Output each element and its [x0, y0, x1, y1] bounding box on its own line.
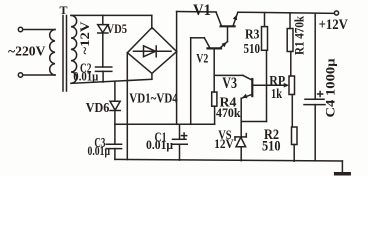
svg-text:RP: RP [269, 73, 285, 88]
diode VD6 [114, 81, 116, 101]
wire bridge left (DC-) down to ground rail [126, 53, 128, 160]
wire node line [115, 123, 215, 125]
svg-text:470k: 470k [216, 105, 241, 120]
svg-text:V1: V1 [193, 2, 211, 19]
capacitor C4 [314, 13, 316, 99]
transistor V1 [221, 25, 235, 27]
svg-text:1k: 1k [271, 87, 282, 102]
+12V terminal [334, 11, 338, 15]
transformer T primary winding [50, 30, 55, 76]
svg-text:C4 1000μ: C4 1000μ [323, 58, 338, 118]
zener VS [235, 136, 246, 138]
svg-text:510: 510 [262, 139, 281, 155]
svg-text:+12V: +12V [319, 17, 348, 33]
svg-text:VD1~VD4: VD1~VD4 [129, 92, 178, 107]
resistor R3 [264, 13, 266, 27]
wire rail down to bridge top [151, 15, 153, 28]
svg-text:R1 470k: R1 470k [292, 15, 307, 55]
svg-text:VD5: VD5 [107, 22, 128, 36]
wire bottom ground rail [115, 159, 343, 161]
transformer T primary terminal bottom [18, 73, 22, 77]
transformer T primary terminal top [18, 27, 22, 31]
capacitor C1 [179, 124, 181, 139]
bridge inner diode [134, 50, 172, 52]
wire secondary bottom AC [71, 79, 152, 83]
svg-text:T: T [60, 3, 68, 17]
svg-text:0.01μ: 0.01μ [88, 144, 111, 158]
svg-text:12V: 12V [214, 136, 234, 151]
capacitor C3 [114, 124, 116, 144]
wire top AC rail [71, 14, 152, 16]
svg-text:V2: V2 [196, 50, 208, 65]
wire raw DC vertical [176, 12, 178, 125]
C4 polarity + [318, 92, 323, 97]
potentiometer RP [289, 76, 295, 95]
svg-text:~220V: ~220V [8, 44, 46, 59]
svg-text:510: 510 [244, 42, 261, 57]
wire top right rail output segment [238, 12, 335, 13]
transformer secondary winding [71, 15, 77, 83]
capacitor C2 [96, 66, 112, 68]
ground [334, 172, 351, 176]
transformer core [62, 16, 64, 92]
bridge rectifier VD1~VD4 diamond [127, 28, 176, 74]
wire [23, 74, 55, 76]
resistor R2 [292, 127, 298, 145]
svg-text:0.01μ: 0.01μ [146, 138, 173, 152]
transistor V2 [208, 47, 222, 49]
svg-text:~12V: ~12V [77, 21, 92, 55]
transistor V3 [251, 79, 253, 96]
svg-text:0.01μ: 0.01μ [73, 70, 98, 84]
svg-text:V3: V3 [222, 75, 237, 92]
resistor R4 [212, 92, 217, 106]
wire top right rail raw segment [177, 11, 216, 14]
resistor R1 [289, 13, 291, 29]
wire V3 base to RP wiper [253, 84, 285, 86]
C1 polarity + [182, 133, 187, 138]
svg-text:R3: R3 [245, 27, 260, 42]
svg-text:VD6: VD6 [86, 101, 110, 116]
wire [23, 29, 55, 31]
diode VD5 [102, 15, 104, 24]
